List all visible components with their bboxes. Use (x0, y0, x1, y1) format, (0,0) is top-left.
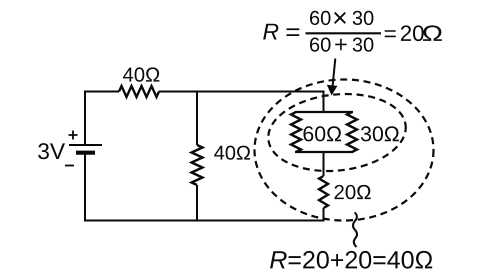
top equation: result ohm symbol (423, 25, 442, 41)
squiggle pointer to bottom equation (353, 213, 357, 248)
wire bottom horizontal (84, 220, 325, 222)
top equation: denominator 60+30 (310, 38, 373, 52)
battery minus sign (65, 165, 74, 167)
bottom equation: =20+20=40-ohm (289, 251, 433, 269)
value label 40-ohm (middle resistor) (214, 146, 250, 160)
top equation: result equals sign (385, 30, 396, 37)
wire top horizontal left of resistor (84, 91, 119, 93)
wire parallel-combination bottom bar (295, 151, 353, 153)
value label 30-ohm (361, 126, 399, 141)
wire top horizontal right of resistor (159, 91, 325, 93)
bottom equation: italic R (270, 251, 287, 268)
top equation: first equals (287, 28, 300, 36)
top equation: fraction bar (306, 32, 382, 34)
wire right branch top lead (323, 91, 325, 113)
battery plus sign (69, 131, 78, 140)
value label 60-ohm (304, 126, 342, 141)
wire middle branch upper lead (196, 92, 198, 146)
wire left branch lower segment (84, 153, 86, 221)
wire between combination and 20-ohm resistor (323, 152, 325, 176)
resistor 40-ohm middle branch (192, 145, 203, 185)
resistor 60-ohm (291, 112, 301, 152)
resistor 40-ohm series (top) (119, 86, 159, 97)
top equation: result 20 (401, 25, 424, 41)
wire left branch upper segment (84, 93, 86, 146)
battery negative plate (76, 151, 95, 155)
top equation: italic R (263, 24, 278, 40)
outer dashed ellipse around right branch (255, 80, 434, 221)
value label 40-ohm (top resistor) (123, 67, 159, 81)
wire 20-ohm resistor lower lead (323, 208, 325, 222)
resistor 20-ohm (319, 176, 328, 208)
battery positive plate (69, 144, 102, 146)
resistor 30-ohm (347, 112, 357, 152)
inner dashed ellipse around 60-ohm and 30-ohm (264, 87, 409, 177)
battery value label 3V (38, 143, 65, 159)
value label 20-ohm (335, 185, 371, 199)
arrow from equation to junction node (333, 59, 336, 87)
wire parallel-combination top bar (295, 111, 353, 113)
top equation: numerator 60x30 (310, 11, 373, 25)
wire middle branch lower lead (196, 185, 198, 221)
